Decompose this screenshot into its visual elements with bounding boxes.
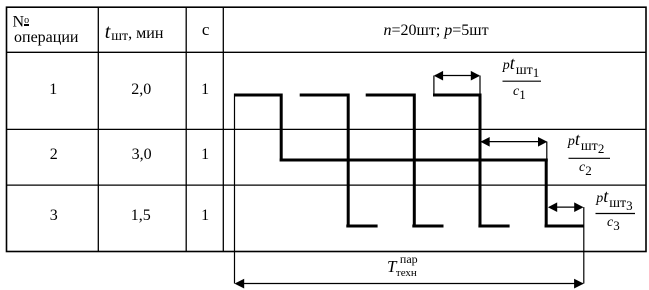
fraction 3 denominator: c3	[607, 216, 620, 233]
chart start vertical guide line	[234, 94, 236, 284]
pt3 arrowhead right	[574, 202, 583, 212]
Ttex dimension arrow shaft	[236, 283, 583, 285]
fraction 1 numerator: pt sht1	[503, 56, 539, 80]
pt2 arrowhead right	[538, 137, 547, 147]
op1 batch bar 3	[366, 94, 416, 97]
header: n=20sht; p=5sht	[384, 24, 489, 38]
header cell: t sht, min	[105, 25, 164, 44]
connector op1 bar1 end to op2 bar	[280, 94, 283, 162]
pt2 dimension arrow shaft	[482, 141, 547, 143]
header cell: c	[202, 23, 210, 37]
pt2 arrowhead left	[480, 137, 489, 147]
fraction bar 3	[596, 213, 636, 215]
op1 batch bar 4	[433, 94, 482, 97]
table column divider 2	[185, 7, 187, 251]
table row divider: row2 bottom	[7, 184, 647, 186]
op3 batch bar 3	[478, 225, 509, 228]
row3 col3: 1	[201, 209, 209, 223]
chart end vertical guide line	[583, 207, 585, 283]
label T italic	[387, 260, 396, 274]
table row divider: row1 bottom	[7, 128, 647, 130]
op1 batch bar 1	[234, 94, 283, 97]
row2 col2: 3,0	[132, 148, 152, 162]
row1 col1: 1	[49, 83, 57, 97]
label T subscript tekhn	[396, 266, 417, 280]
row3 col1: 3	[50, 209, 58, 223]
op3 batch bar 1	[346, 225, 377, 228]
table column divider 1	[97, 7, 99, 251]
connector op2 bar end to op3 bar4	[545, 159, 548, 228]
fraction 3 numerator: pt sht3	[596, 189, 632, 213]
op3 batch bar 4	[545, 225, 584, 228]
label T superscript par	[400, 252, 418, 266]
pt1 dimension arrow shaft	[435, 75, 479, 77]
op1 batch bar 2	[300, 94, 350, 97]
connector op1 bar4 end to op3 bar3	[479, 94, 482, 228]
pt3 arrowhead left	[548, 202, 557, 212]
header cell: No (numero sign)	[13, 14, 30, 29]
row1 col2: 2,0	[131, 83, 151, 97]
fraction bar 2	[569, 157, 611, 159]
row3 col2: 1,5	[131, 209, 151, 223]
row2 col3: 1	[201, 148, 209, 162]
header cell: operacii	[14, 31, 78, 45]
connector op1 bar3 end to op3 bar2	[413, 94, 416, 228]
Ttex arrowhead right	[574, 279, 584, 289]
pt3 dimension arrow shaft	[549, 206, 583, 208]
row2 col1: 2	[50, 148, 58, 162]
fraction 2 denominator: c2	[579, 161, 592, 178]
pt1 arrowhead left	[434, 71, 443, 81]
row1 col3: 1	[201, 83, 209, 97]
pt2 arrow right riser	[546, 142, 548, 159]
op3 batch bar 2	[412, 225, 443, 228]
pt1 arrow left riser	[433, 76, 435, 94]
op2 bar	[280, 159, 548, 162]
table column divider 3	[222, 7, 224, 251]
fraction 2 numerator: pt sht2	[568, 132, 604, 156]
Ttex arrowhead left	[235, 279, 245, 289]
pt1 arrow right riser	[479, 76, 481, 94]
table row divider: header bottom	[7, 51, 647, 53]
pt1 arrowhead right	[471, 71, 480, 81]
connector op1 bar2 end to op3 bar1	[347, 94, 350, 228]
underline of numero o	[24, 24, 30, 25]
fraction 1 denominator: c1	[513, 85, 526, 102]
fraction bar 1	[503, 80, 542, 82]
